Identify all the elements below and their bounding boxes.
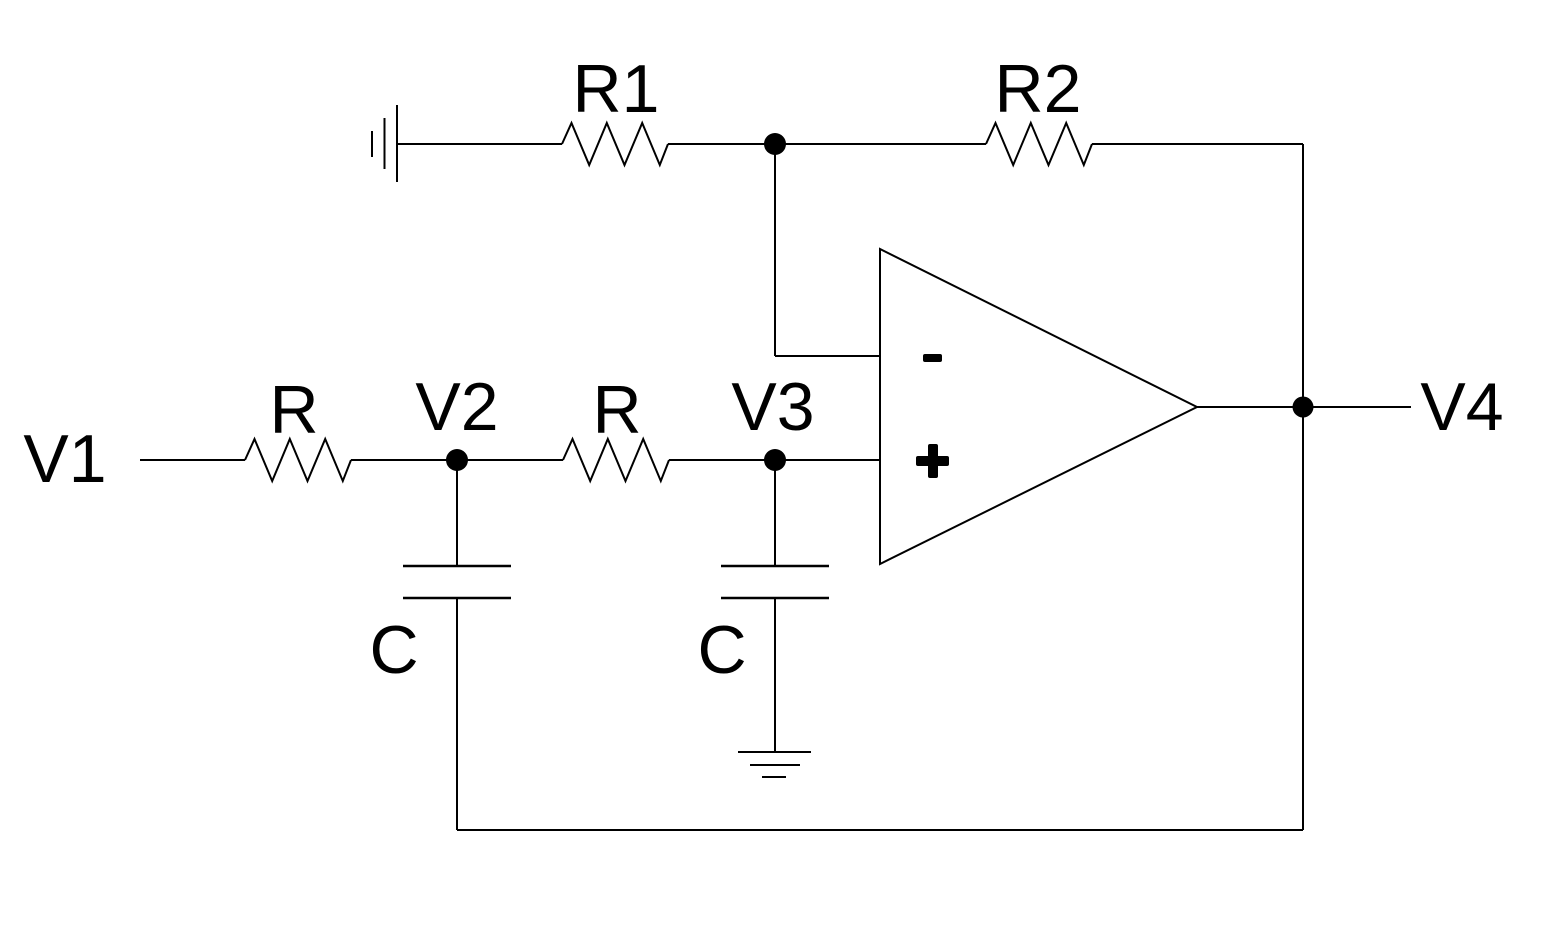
svg-text:R1: R1 — [573, 51, 660, 127]
svg-text:R2: R2 — [995, 51, 1082, 127]
svg-text:V3: V3 — [731, 369, 814, 445]
svg-text:R: R — [592, 372, 641, 448]
svg-text:C: C — [697, 612, 746, 688]
svg-text:V2: V2 — [415, 369, 498, 445]
svg-text:V1: V1 — [23, 421, 106, 497]
svg-text:C: C — [369, 612, 418, 688]
svg-text:V4: V4 — [1420, 369, 1503, 445]
svg-text:R: R — [269, 372, 318, 448]
